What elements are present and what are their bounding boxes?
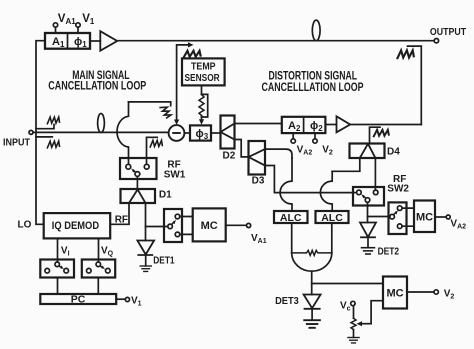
wire: resistor to phi3 <box>201 116 203 122</box>
ground DET3 <box>304 320 320 328</box>
wire: switches to PC <box>58 278 99 295</box>
wire: TEMP coupled stub with arrow <box>177 45 189 122</box>
wire: D4 coupled stub <box>370 127 381 143</box>
wire: ALC outputs to combiner <box>291 223 293 253</box>
wire: wiper to MC <box>371 301 383 324</box>
wire: D1 right leg down <box>145 203 147 241</box>
svg-text:D2: D2 <box>223 151 236 162</box>
wire: pot to ground <box>353 330 355 338</box>
arrow into tempsensor path <box>188 42 194 47</box>
wire: feed line from A1 left down to LO <box>36 41 45 225</box>
ground DET1 <box>140 266 151 271</box>
wire: combiner to MC V2 <box>312 283 383 285</box>
signal squiggle output stub <box>397 50 413 58</box>
microcontroller MC V2 <box>383 277 407 309</box>
svg-text:MC: MC <box>201 220 218 232</box>
ALC box right <box>316 211 349 223</box>
wire: VQ down <box>98 238 100 262</box>
switch RF SW2 <box>353 187 384 206</box>
signal squiggle RF SW1 stub <box>150 140 162 147</box>
gain box A2 phi2 <box>282 117 326 133</box>
signal squiggle lower input <box>47 141 59 148</box>
svg-text:SW2: SW2 <box>387 184 409 195</box>
wire: coupled branch to subtractor corner <box>129 102 171 106</box>
svg-text:SW1: SW1 <box>164 170 186 181</box>
svg-text:D3: D3 <box>252 176 265 187</box>
wire: junction to switch MC A2 <box>368 216 390 218</box>
wire: RF SW1 to D1 <box>136 177 138 190</box>
ground DET2 <box>361 248 374 254</box>
svg-text:MC: MC <box>386 288 403 300</box>
switch box VI <box>40 260 74 278</box>
wire: D3 top out to bump1 <box>265 149 292 158</box>
ALC box left <box>274 211 308 223</box>
splitter D2 <box>221 116 235 149</box>
signal squiggle near subtractor corner <box>160 105 171 119</box>
wire: junction to switch MC A1 <box>146 226 168 228</box>
input terminal <box>29 130 33 134</box>
svg-text:MC: MC <box>416 211 433 223</box>
wire: D3 bottom out to sample line <box>265 166 280 193</box>
wire: Vc to potentiometer <box>353 306 355 319</box>
wire: amp2 output to injection stub <box>350 124 421 126</box>
output terminal <box>434 39 438 43</box>
svg-text:D4: D4 <box>387 146 400 157</box>
IQ demodulator box <box>44 213 111 238</box>
potentiometer R pot <box>351 318 356 329</box>
phase shifter phi3 box <box>190 125 211 140</box>
terminal VA2 out <box>446 215 450 219</box>
signal squiggle upper input <box>47 117 59 124</box>
wire: main top line <box>117 40 434 42</box>
coupler bump B1 <box>280 158 292 211</box>
microcontroller MC VA2 <box>414 201 435 233</box>
terminal V1 out <box>125 297 129 301</box>
wire: D4 left leg to bump2 <box>332 158 360 171</box>
svg-text:TEMP: TEMP <box>191 61 216 72</box>
switch box VQ <box>82 260 115 278</box>
switch box MC A1 <box>164 209 182 242</box>
svg-text:CANCELLLATION LOOP: CANCELLLATION LOOP <box>262 80 364 94</box>
wire: MC to VA2 terminal <box>435 216 446 218</box>
signal squiggle temp stub <box>184 51 201 58</box>
svg-text:ALC: ALC <box>280 212 302 224</box>
terminal V1 top <box>76 23 80 27</box>
wire: input upper coupled stub <box>36 125 54 129</box>
switch RF SW1 <box>120 158 157 179</box>
wire: RF SW1 stub input <box>147 137 158 164</box>
signal squiggle D4 stub <box>374 130 389 137</box>
svg-text:LO: LO <box>18 219 32 230</box>
arrow into phi3 <box>199 119 204 124</box>
switch box MC A2 <box>389 202 407 234</box>
svg-text:PC: PC <box>71 294 86 306</box>
svg-text:IQ DEMOD: IQ DEMOD <box>52 220 99 232</box>
coupler bump B2 <box>320 171 332 211</box>
svg-text:DET1: DET1 <box>153 256 175 267</box>
wiper arrow to pot <box>360 323 371 325</box>
diode DET3 <box>304 295 321 309</box>
terminal VA1 out <box>247 223 251 227</box>
computer PC box <box>40 294 116 304</box>
splitter D3 <box>249 141 266 175</box>
wire: MC to V2 terminal <box>407 291 434 293</box>
gain box A1 phi1 <box>45 33 90 49</box>
wire: D2 to D3 <box>235 140 249 157</box>
attenuator D4 <box>350 144 385 159</box>
ground pot <box>348 338 359 343</box>
op-amp error amplifier <box>337 116 351 132</box>
coupler branch curve CP1 <box>117 102 128 164</box>
wire: D2 to A2 <box>235 123 282 125</box>
wire: temp sensor to resistor <box>201 85 203 94</box>
wire: subtractor to phi3 <box>184 132 190 134</box>
wire: VI down <box>57 238 59 262</box>
diode DET1 <box>137 241 154 255</box>
svg-text:ALC: ALC <box>321 212 343 224</box>
coupler ellipse CP1 <box>98 114 105 133</box>
combiner chord with resistor R <box>292 250 332 255</box>
wire: PC to V1 terminal <box>116 298 125 300</box>
wire: input lower coupled stub <box>36 136 52 138</box>
svg-text:D1: D1 <box>159 189 172 200</box>
svg-text:RF: RF <box>115 215 128 226</box>
terminal VA1 top <box>53 23 57 27</box>
wire: MC to VA1 terminal <box>226 224 247 226</box>
subtractor node <box>169 125 185 141</box>
temp sensor box <box>182 58 225 85</box>
svg-text:CANCELLATION LOOP: CANCELLATION LOOP <box>48 79 146 93</box>
svg-text:SENSOR: SENSOR <box>185 73 221 84</box>
arrow into subtractor <box>174 120 179 125</box>
wire: D4 right leg to RF SW2 <box>374 158 376 190</box>
bypass loop of thermistor <box>202 94 208 117</box>
diode DET2 <box>360 223 376 238</box>
svg-text:OUTPUT: OUTPUT <box>430 26 467 38</box>
svg-text:INPUT: INPUT <box>3 137 30 148</box>
terminal VA2 <box>291 139 295 143</box>
wire: RF SW2 output down <box>367 202 369 222</box>
wire: sample line through bumps to RF SW2 <box>280 192 356 194</box>
attenuator D1 <box>121 189 156 203</box>
coupler ellipse CP2 <box>312 20 320 41</box>
wire: phi3 to D2 <box>211 132 221 134</box>
svg-text:DET3: DET3 <box>275 296 299 307</box>
terminal V2 <box>313 139 317 143</box>
resistor thermistor network <box>199 94 204 115</box>
terminal Vc <box>351 301 355 305</box>
wire: combiner output <box>311 271 313 294</box>
terminal V2 out <box>434 290 438 294</box>
wire: output coupled stub <box>408 46 422 124</box>
microcontroller MC VA1 <box>193 208 226 241</box>
op-amp main amplifier <box>100 31 117 51</box>
svg-text:DET2: DET2 <box>378 247 400 258</box>
wire: D1 left leg to IQ DEMOD RF <box>111 203 129 224</box>
combiner arc <box>292 253 332 271</box>
wire: main line input to subtractor <box>33 131 169 133</box>
